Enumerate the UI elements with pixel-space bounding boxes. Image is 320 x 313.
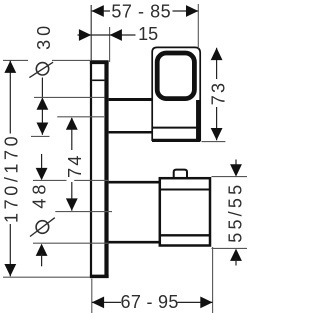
wall plate seam line <box>92 79 104 81</box>
dim 57-85 left extension line <box>90 5 92 61</box>
top handle interior line <box>153 127 197 129</box>
wall plate right edge <box>104 61 108 279</box>
svg-text:30: 30 <box>34 22 54 50</box>
thermostat knob upper interior line <box>160 189 210 191</box>
dim 74 up arrow <box>66 117 78 129</box>
wall plate left edge <box>90 61 92 279</box>
dim 73 down arrow <box>211 128 223 140</box>
dim 67-95 line left segment <box>92 301 121 303</box>
dim 30 top reference line <box>34 96 104 98</box>
wall plate bottom edge <box>90 275 109 279</box>
dim 170/170 top extension line <box>3 59 28 61</box>
dim 15 left arrow outside <box>79 29 91 41</box>
dim 57-85 line right segment <box>173 10 199 12</box>
dim 48 up arrow outside <box>36 244 48 256</box>
svg-text:170/170: 170/170 <box>1 133 21 223</box>
dim 48 down arrow outside <box>36 168 48 180</box>
dim 170/170 bottom extension line <box>3 276 90 278</box>
dim 48 bottom reference line <box>33 242 108 244</box>
svg-text:55/55: 55/55 <box>226 182 246 243</box>
dim 73 line upper <box>216 48 218 79</box>
thermostat knob lower interior line <box>160 234 210 236</box>
dim diameter 48 line upper tail <box>41 154 43 170</box>
dim 30 down arrow <box>37 123 49 135</box>
lower stem bottom line <box>109 241 159 244</box>
dim 30 line upper tail <box>41 78 43 98</box>
dim 67-95 right extension line <box>212 247 214 313</box>
dim 55/55 bottom reference line <box>212 247 248 249</box>
upper stem top line <box>109 98 153 101</box>
upper stem bottom line <box>109 131 153 134</box>
dim diameter 48 symbol circle <box>36 221 49 234</box>
svg-text:74: 74 <box>65 153 85 177</box>
top handle outer profile <box>152 47 200 141</box>
dim 30 line <box>41 97 43 134</box>
thermostat knob body <box>160 178 210 245</box>
dim 30 bottom reference tick <box>31 135 50 137</box>
svg-text:48: 48 <box>30 181 50 209</box>
svg-text:15: 15 <box>138 24 158 44</box>
dim 74 top reference line <box>57 116 104 118</box>
dim 74 down arrow <box>66 198 78 210</box>
top handle grip ring <box>157 53 194 99</box>
dim diameter 30 symbol slash <box>29 62 53 77</box>
dim 48 line lower tail <box>41 254 43 267</box>
dim 67-95 left extension line <box>91 279 93 313</box>
dim 57-85 right extension line <box>197 4 199 49</box>
dim 48 top reference line right <box>74 179 108 181</box>
thermostat knob top tab <box>174 170 187 178</box>
dim 15 right arrow outside <box>110 29 122 41</box>
dim diameter 30 symbol circle <box>36 63 48 75</box>
dim 67-95 right arrow <box>200 297 212 309</box>
dim 67-95 line right segment <box>178 301 213 303</box>
dim 57-85 line left segment <box>92 10 111 12</box>
dim 170/170 up arrow <box>4 61 16 73</box>
dim diameter 48 symbol slash <box>30 218 55 237</box>
lower stem top line <box>109 181 159 184</box>
dim 30 up arrow <box>37 97 49 109</box>
dim 74 line lower <box>71 182 73 211</box>
dim 67-95 left arrow <box>92 297 104 309</box>
dim 55/55 lower tail <box>235 258 237 266</box>
dim 170/170 line upper <box>9 61 11 134</box>
dim 55/55 upper tail <box>235 160 237 168</box>
dim 48 top reference line left <box>33 179 67 181</box>
dim 15 right extension line <box>109 27 111 62</box>
svg-text:67 - 95: 67 - 95 <box>121 292 179 312</box>
top handle bottom edge <box>152 139 200 142</box>
dim 55/55 top reference line <box>212 176 248 178</box>
dim 73 line lower <box>216 107 218 140</box>
dim 73 up arrow <box>211 48 223 60</box>
wall plate top edge <box>90 60 109 64</box>
dim 74 line upper <box>71 118 73 150</box>
dim 57-85 left arrow <box>92 5 104 17</box>
dim 55/55 up arrow outside <box>230 249 242 261</box>
top handle right edge thick <box>196 100 200 140</box>
svg-text:57 - 85: 57 - 85 <box>111 2 171 22</box>
svg-text:73: 73 <box>209 81 229 105</box>
dim 15 line <box>78 34 136 36</box>
dim 170/170 top extension line right part <box>52 59 91 61</box>
dim 74 bottom reference line <box>55 211 112 213</box>
dim 170/170 down arrow <box>4 264 16 276</box>
dim 73 bottom reference line <box>202 141 226 143</box>
dim 57-85 right arrow <box>186 5 198 17</box>
dim 170/170 line lower <box>9 224 11 276</box>
dim 55/55 down arrow outside <box>230 164 242 176</box>
